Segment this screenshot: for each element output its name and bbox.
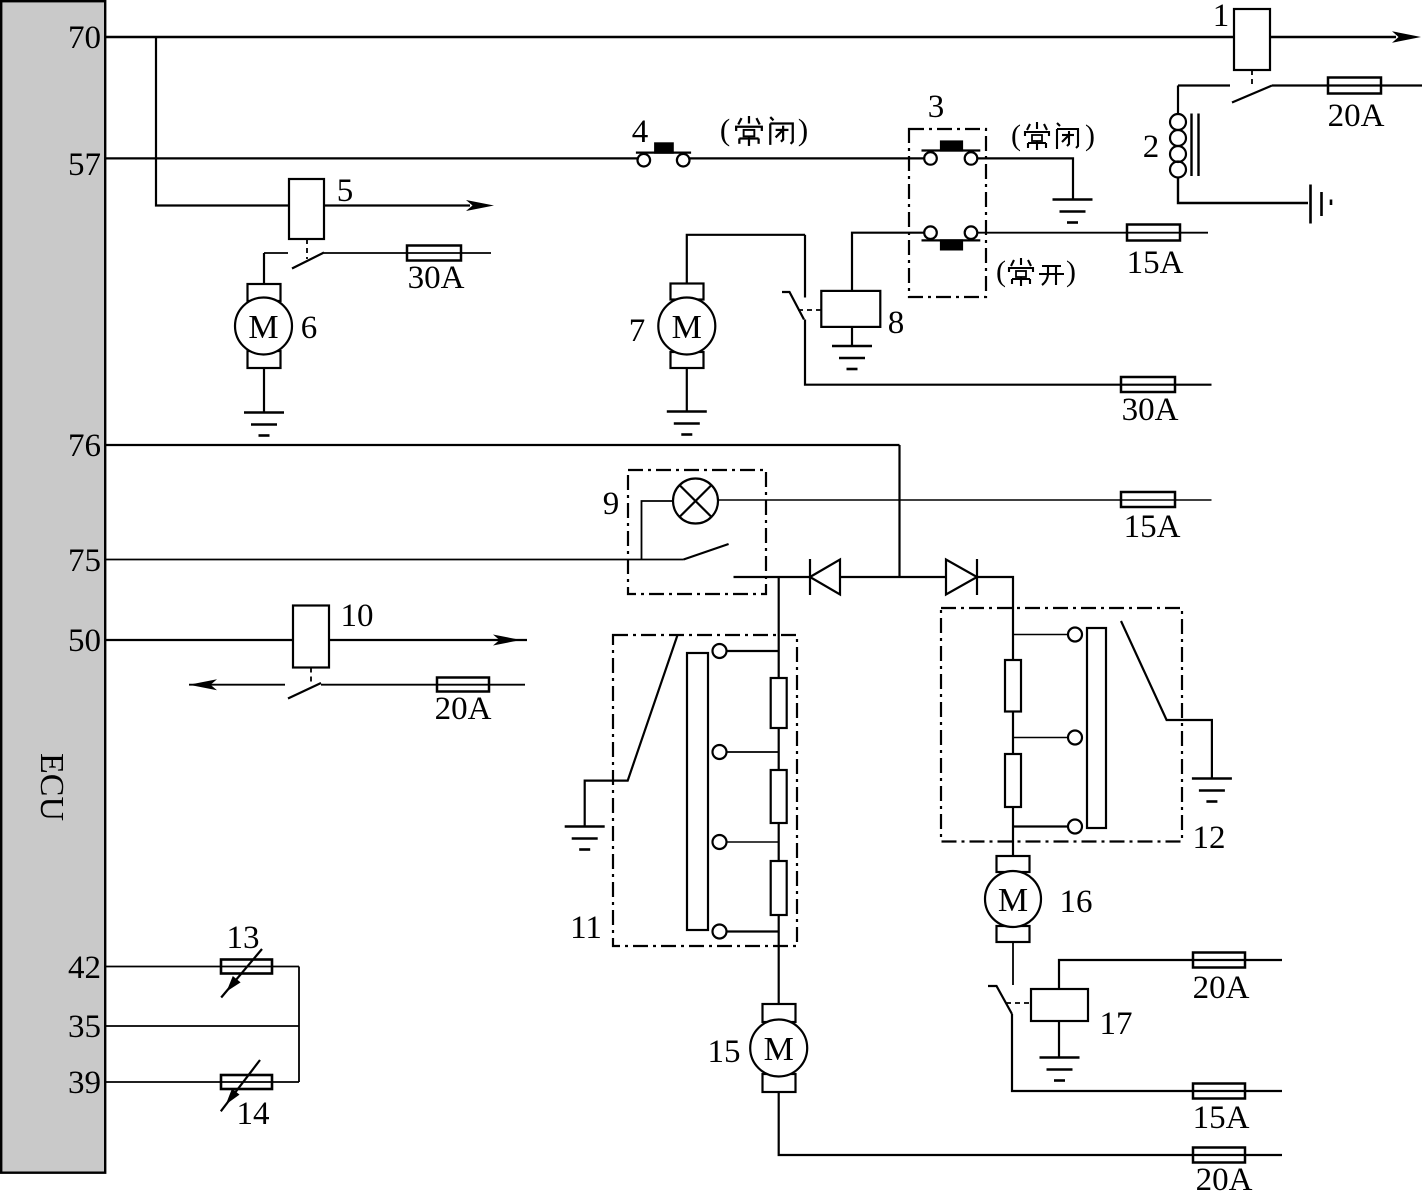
wire pin 50 to relay 10	[106, 639, 293, 641]
wire motor 6 to ground	[263, 368, 265, 412]
switch blade (relay 5 contact)	[292, 253, 324, 269]
svg-text:3: 3	[928, 89, 945, 125]
svg-text:12: 12	[1193, 820, 1226, 856]
motor 7	[658, 284, 715, 369]
switch blade (relay 1 contact)	[1232, 86, 1272, 103]
sensor 14 body	[221, 1075, 272, 1089]
svg-text:10: 10	[341, 598, 374, 634]
sensor 13 body	[221, 960, 272, 974]
svg-text:(: (	[720, 112, 730, 147]
wire pin 35	[106, 1025, 299, 1027]
wire lamp to fuse 15A (middle)	[718, 499, 1212, 501]
svg-text:15A: 15A	[1127, 245, 1184, 281]
svg-text:30A: 30A	[1122, 392, 1179, 428]
wire pin 42	[106, 966, 299, 968]
ground (switch 3 upper)	[1053, 200, 1093, 223]
wire relay 17 to ground	[1058, 1021, 1060, 1057]
ECU block	[1, 1, 105, 1173]
arrow after relay 10	[493, 635, 521, 646]
blower unit 12 dash-dot box	[941, 608, 1182, 842]
contact stub 3 (unit 11)	[727, 841, 779, 843]
ground (relay 17)	[1040, 1058, 1080, 1081]
svg-text:8: 8	[888, 305, 905, 341]
svg-text:75: 75	[68, 543, 101, 579]
relay 1	[1234, 9, 1270, 70]
svg-text:7: 7	[629, 313, 646, 349]
switch blade (unit 9)	[684, 544, 729, 560]
fuse 15A (bottom right)	[1193, 1084, 1245, 1099]
wire between diodes	[840, 576, 946, 578]
wire switch 5 down to motor 6	[263, 253, 265, 284]
switch 3 upper (normally closed)	[922, 142, 981, 165]
wire switch 10 to fuse 20A	[321, 684, 525, 686]
wire unit 9 output to box 12 corner	[734, 576, 811, 578]
wire motor 7 to ground	[686, 368, 688, 411]
svg-text:1: 1	[1213, 0, 1230, 34]
wire relay 8 common upper	[804, 235, 806, 298]
dashed link relay 5 to switch	[306, 239, 308, 259]
contact circle 3 (unit 12)	[1068, 820, 1082, 834]
wire stub left of switch 5	[264, 252, 288, 254]
svg-text:30A: 30A	[408, 260, 465, 296]
svg-text:9: 9	[603, 486, 620, 522]
ground (unit 12)	[1192, 779, 1232, 802]
slider bar (unit 12)	[1087, 628, 1106, 828]
relay 10	[293, 606, 329, 668]
svg-text:16: 16	[1060, 884, 1093, 920]
coil 2 (horn)	[1170, 86, 1308, 204]
fuse 30A (left)	[407, 246, 461, 261]
resistor R1 (unit 12)	[1005, 660, 1021, 712]
arrow through sensor 14	[221, 1060, 260, 1111]
ground (relay 8)	[832, 346, 872, 369]
wire switch 8 down to fuse 30A right	[805, 320, 1212, 385]
resistor R1 (unit 11)	[771, 678, 787, 728]
svg-text:76: 76	[68, 428, 101, 464]
svg-text:20A: 20A	[1196, 1162, 1253, 1192]
wire switch 5 to fuse 30A	[324, 252, 491, 254]
wire bus unit 12	[1012, 608, 1014, 856]
svg-text:39: 39	[68, 1065, 101, 1101]
wire 3a to ground	[977, 158, 1073, 199]
wire 70 line after relay 1 with arrow	[1270, 36, 1396, 38]
switch blade (relay 8)	[782, 292, 804, 320]
svg-text:M: M	[248, 309, 278, 346]
resistor R2 (unit 12)	[1005, 754, 1021, 807]
diode D2 (pointing right)	[946, 559, 977, 595]
svg-text:15A: 15A	[1124, 509, 1181, 545]
wire left arrow to switch 10	[189, 684, 285, 686]
dashed link relay 10 to switch	[310, 668, 312, 684]
svg-text:2: 2	[1143, 129, 1160, 165]
arrow pointing left (feed line)	[189, 679, 217, 690]
relay 8 coil box	[821, 291, 880, 327]
switch unit 3 dash-dot box	[909, 129, 986, 297]
wire 3b to fuse 15A	[977, 232, 1208, 234]
relay 17 coil box	[1031, 989, 1088, 1021]
slider bar (unit 11)	[687, 653, 708, 930]
contact stub 1 (unit 11)	[727, 650, 779, 652]
svg-text:): )	[1085, 119, 1095, 152]
arrow after relay 5	[466, 200, 494, 211]
label (常闭) after switch 4	[720, 112, 808, 147]
unit 9 dash-dot box	[628, 470, 766, 594]
label (常开) below box 3	[996, 255, 1076, 288]
ground (coil 2, sideways)	[1311, 185, 1332, 224]
svg-text:6: 6	[301, 310, 318, 346]
resistor R3 (unit 11)	[771, 861, 787, 915]
svg-text:14: 14	[237, 1096, 270, 1132]
motor 16	[985, 856, 1041, 942]
switch 3 lower (normally open)	[922, 226, 981, 249]
dashed link relay 1 to switch	[1251, 70, 1253, 85]
fuse 20A (bottom)	[1193, 1148, 1245, 1163]
wire relay 8 to contact 3b	[852, 233, 924, 291]
wiper arm (unit 11)	[585, 635, 678, 826]
svg-text:11: 11	[570, 910, 602, 946]
wire switch 4 to contact 3a	[690, 157, 925, 159]
ground (motor 7)	[667, 412, 707, 435]
wire pin 76 to junction	[106, 444, 900, 446]
fuse 15A (middle right)	[1121, 492, 1175, 507]
wire junction down to diode line	[898, 445, 900, 577]
dashed link switch to relay 8	[798, 309, 821, 311]
svg-text:15A: 15A	[1193, 1100, 1250, 1136]
dashed link switch to relay 17	[1006, 1002, 1031, 1004]
svg-text:20A: 20A	[1328, 98, 1385, 134]
wire relay 5 output with arrow	[324, 204, 470, 206]
wire horn switch line left	[1178, 84, 1230, 86]
svg-text:M: M	[672, 309, 702, 346]
wire switch 17 down to fuse 15A bottom	[1012, 1014, 1282, 1091]
wire relay 8 to ground	[851, 327, 853, 346]
wiper arm (unit 12)	[1121, 621, 1212, 778]
ground (unit 11)	[565, 827, 605, 850]
contact circle 4 (unit 11)	[713, 925, 727, 939]
svg-text:20A: 20A	[1193, 970, 1250, 1006]
svg-text:(: (	[996, 255, 1006, 288]
svg-text:M: M	[764, 1031, 794, 1068]
lamp 9	[673, 479, 718, 524]
fuse 20A (top right)	[1328, 78, 1381, 94]
wire bus into unit 11	[778, 577, 780, 1004]
svg-text:): )	[1066, 255, 1076, 288]
svg-text:13: 13	[227, 920, 260, 956]
fuse 20A (middle left)	[437, 678, 489, 692]
wire vertical joining 42-35-39	[298, 967, 300, 1083]
blower resistor unit 11 dash-dot box	[613, 635, 797, 946]
label (常闭) right of box 3	[1011, 119, 1095, 152]
svg-text:35: 35	[68, 1009, 101, 1045]
wire pin 57 to switch 4	[106, 157, 637, 159]
diode D1 (pointing left)	[810, 559, 840, 595]
contact circle 2 (unit 11)	[713, 745, 727, 759]
svg-text:70: 70	[68, 20, 101, 56]
svg-text:17: 17	[1100, 1006, 1133, 1042]
svg-text:42: 42	[68, 950, 101, 986]
wire motor 16 down to switch 17	[1012, 942, 1014, 985]
wire switch to fuse 20A	[1272, 84, 1422, 86]
wire diode D2 to box 12	[977, 577, 1013, 608]
svg-text:57: 57	[68, 147, 101, 183]
contact circle 1 (unit 12)	[1068, 628, 1082, 642]
contact stub 1 (unit 12)	[1013, 634, 1068, 636]
arrow right end of 70 line	[1392, 31, 1421, 43]
fuse 20A (right)	[1193, 953, 1245, 968]
fuse 15A (upper right)	[1127, 225, 1180, 241]
wire pin 70 bus	[106, 36, 1234, 38]
ground (motor 6)	[244, 413, 284, 436]
wire lamp left leg	[642, 501, 674, 560]
contact stub 3 (unit 12)	[1013, 825, 1068, 827]
svg-text:15: 15	[708, 1034, 741, 1070]
arrow through sensor 13	[221, 949, 262, 998]
svg-text:(: (	[1011, 119, 1021, 152]
svg-text:5: 5	[337, 173, 354, 209]
wire pin 39	[106, 1081, 299, 1083]
svg-text:M: M	[998, 882, 1028, 919]
svg-text:ECU: ECU	[33, 753, 70, 821]
relay 5	[289, 179, 324, 239]
contact stub 2 (unit 12)	[1013, 737, 1068, 739]
svg-text:50: 50	[68, 623, 101, 659]
wire relay 17 up to fuse 20A right	[1059, 960, 1282, 989]
switch blade (relay 10 contact)	[288, 683, 321, 699]
contact circle 1 (unit 11)	[713, 644, 727, 658]
wire pin 75 into unit 9	[106, 559, 684, 561]
contact stub 4 (unit 11)	[727, 930, 779, 932]
contact circle 2 (unit 12)	[1068, 731, 1082, 745]
svg-text:20A: 20A	[435, 691, 492, 727]
fuse 30A (right)	[1121, 377, 1175, 392]
switch blade (relay 17)	[988, 986, 1012, 1014]
motor 15	[750, 1004, 807, 1092]
contact stub 2 (unit 11)	[727, 751, 779, 753]
contact circle 3 (unit 11)	[713, 835, 727, 849]
wire branch from 70 down to relay 5	[156, 37, 289, 206]
resistor R2 (unit 11)	[771, 770, 787, 823]
wire motor 7 feed	[687, 235, 805, 284]
svg-text:): )	[798, 112, 808, 147]
switch 4	[636, 143, 691, 166]
wire relay 10 output with arrow	[329, 639, 527, 641]
motor 6	[235, 284, 292, 368]
wire motor 15 to bottom fuse 20A	[779, 1092, 1282, 1155]
svg-text:4: 4	[632, 114, 649, 150]
